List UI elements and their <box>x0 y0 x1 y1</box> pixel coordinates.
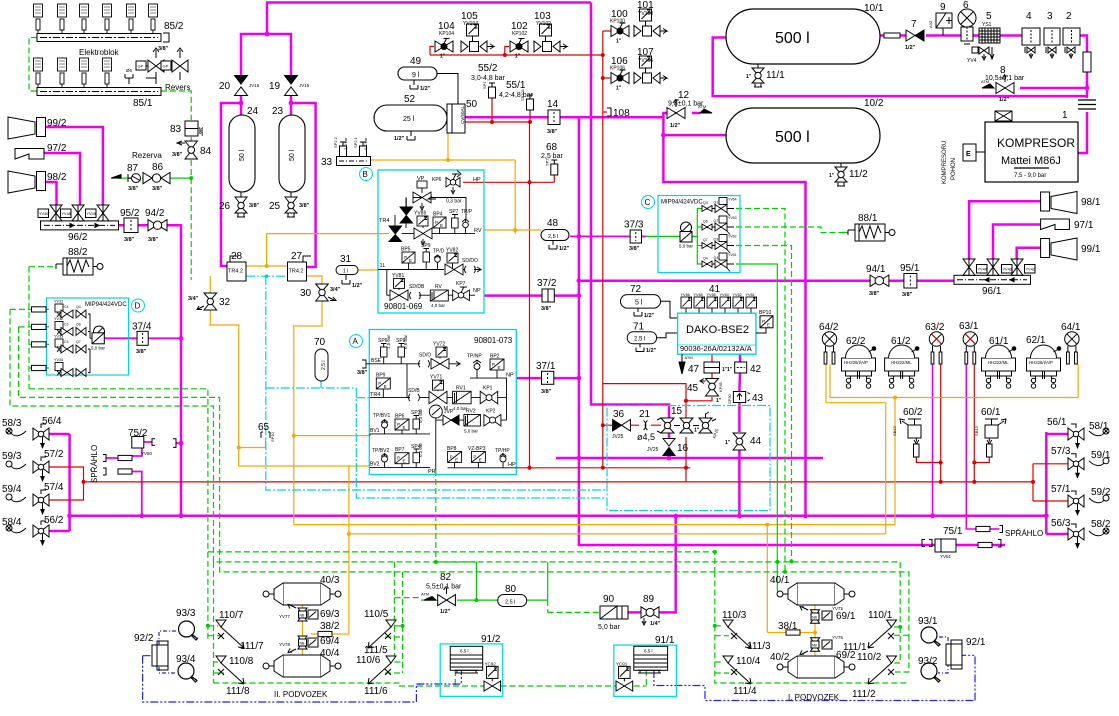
pe BP6 <box>395 419 409 434</box>
svg-text:111/2: 111/2 <box>852 689 876 700</box>
svg-text:1": 1" <box>440 54 446 60</box>
bracket 75/2d <box>103 468 106 475</box>
svg-text:GP: GP <box>138 64 144 69</box>
sp SP2.1 <box>353 136 368 156</box>
svg-text:37/4: 37/4 <box>132 322 152 333</box>
svg-text:3: 3 <box>1047 11 1053 22</box>
flag 110/5 <box>386 620 396 627</box>
svg-text:1 l: 1 l <box>343 269 348 275</box>
svg-text:5,0 bar: 5,0 bar <box>91 346 106 351</box>
solenoid YV81 <box>394 278 405 290</box>
svg-text:55/2: 55/2 <box>478 63 498 74</box>
valve 12 <box>667 99 712 129</box>
valve YV71 <box>429 380 447 404</box>
box YV51 <box>935 539 956 559</box>
valves 41 row <box>681 293 757 313</box>
svg-text:64/2: 64/2 <box>819 322 839 333</box>
block D rows <box>54 300 90 377</box>
svg-text:SP9: SP9 <box>421 243 431 249</box>
valve YV86b <box>414 226 432 245</box>
svg-text:3/8": 3/8" <box>136 349 147 355</box>
node V1 458 junction <box>577 456 582 461</box>
box 92/1 <box>946 640 962 669</box>
wire orange long line1 y=524.6 <box>294 524 895 526</box>
resistor 38/2 <box>318 631 332 636</box>
svg-text:2,5 l: 2,5 l <box>548 234 558 240</box>
wire orange right podvozek riser <box>767 525 815 656</box>
label C circle <box>642 196 655 209</box>
svg-text:3,0-4,8 bar: 3,0-4,8 bar <box>471 75 506 82</box>
svg-text:YS1: YS1 <box>982 22 992 28</box>
drain 71 <box>636 344 657 354</box>
drain 48 <box>549 241 570 253</box>
node top line junction <box>265 32 270 37</box>
horn 97/1 <box>1041 219 1070 230</box>
wire red 60/1 drop <box>974 364 989 482</box>
svg-text:P: P <box>473 454 476 459</box>
svg-text:19: 19 <box>269 81 281 92</box>
svg-text:110/4: 110/4 <box>736 656 761 667</box>
sp SP6 <box>381 344 388 364</box>
svg-text:75/1: 75/1 <box>943 526 963 537</box>
svg-text:HH222/ML: HH222/ML <box>988 360 1009 365</box>
svg-text:Rezerva: Rezerva <box>132 151 162 160</box>
node red HP-602 junction <box>601 466 605 470</box>
svg-text:SD/B: SD/B <box>408 388 420 394</box>
svg-text:KOMPRESORU: KOMPRESORU <box>942 141 948 184</box>
valve 26 <box>235 192 247 217</box>
valve SD/DB row <box>390 290 430 301</box>
wire green block C bus <box>697 209 702 265</box>
svg-text:PR: PR <box>428 469 436 475</box>
node green flagL1 junction <box>401 624 405 628</box>
wire green flags center riser <box>715 572 909 684</box>
tube 1a <box>1083 52 1091 72</box>
wire V1 vertical x=578.9 <box>579 117 1005 545</box>
wire dryer 50 outlet line y=117.3 <box>465 116 663 119</box>
wire green rezerva line <box>119 177 191 179</box>
box 14 <box>548 110 560 125</box>
bus HP A <box>448 467 517 469</box>
svg-text:56/2: 56/2 <box>44 515 64 526</box>
svg-text:YV64: YV64 <box>728 198 737 202</box>
drain 85/1 <box>125 74 133 84</box>
svg-text:P: P <box>397 422 400 427</box>
svg-text:C4: C4 <box>64 305 69 309</box>
cylinders on 85/1 <box>34 58 112 88</box>
valve 16 <box>647 439 675 456</box>
svg-text:E: E <box>767 322 770 327</box>
drier 40/1 <box>777 583 855 605</box>
box 3 <box>1044 28 1060 58</box>
svg-text:52: 52 <box>404 94 416 105</box>
capsule 31 <box>336 266 358 275</box>
svg-text:ATM: ATM <box>685 355 693 360</box>
svg-text:3/8": 3/8" <box>172 152 183 158</box>
resistor 75/1 <box>976 526 990 531</box>
wire green PR drop <box>436 470 477 562</box>
node V1 37/2 junction <box>577 293 582 298</box>
arrow 111/4 <box>728 663 751 684</box>
svg-text:3/8": 3/8" <box>357 370 368 376</box>
svg-text:YV31: YV31 <box>54 300 63 304</box>
pe BP2 <box>490 359 504 378</box>
svg-text:YV102: YV102 <box>536 21 551 27</box>
wire green box90 line <box>548 600 600 612</box>
svg-text:95/1: 95/1 <box>900 263 920 274</box>
unit 60/1 <box>974 419 1006 457</box>
svg-text:500 l: 500 l <box>775 129 810 146</box>
svg-text:40/3: 40/3 <box>320 575 340 586</box>
svg-text:57/2: 57/2 <box>44 449 64 460</box>
svg-text:33: 33 <box>321 157 333 168</box>
svg-text:TR4.2: TR4.2 <box>289 269 304 275</box>
valve 96/1-2 <box>987 259 1012 275</box>
wire tank10-1 loop <box>713 38 1087 97</box>
chk TP/P <box>462 219 469 234</box>
node green G552 joint <box>713 550 717 554</box>
svg-text:57/1: 57/1 <box>1051 484 1071 495</box>
svg-text:E: E <box>384 384 387 389</box>
valve 57/3 <box>1068 454 1084 479</box>
mag 93/2 <box>921 663 940 682</box>
svg-text:YV66: YV66 <box>681 293 690 297</box>
wire green 88/2 feed <box>29 267 56 389</box>
svg-text:56/1: 56/1 <box>1047 417 1067 428</box>
svg-text:D: D <box>135 302 141 311</box>
svg-text:50 l: 50 l <box>239 149 246 161</box>
svg-text:YC91: YC91 <box>616 661 628 666</box>
node 56-right junction <box>1044 513 1049 518</box>
svg-text:43: 43 <box>752 393 764 404</box>
svg-text:93/4: 93/4 <box>176 654 196 665</box>
wire horn 98/1 <box>969 201 1041 262</box>
svg-text:11/2: 11/2 <box>849 169 868 180</box>
flag 110/8 <box>216 656 226 663</box>
wire horn 99/1 <box>1017 248 1041 262</box>
rezerva arrow <box>111 175 121 179</box>
wire valve44 drop <box>738 450 741 516</box>
svg-text:16: 16 <box>677 443 689 454</box>
svg-text:SD/DB: SD/DB <box>409 284 425 290</box>
svg-text:5,0 bar: 5,0 bar <box>464 429 479 434</box>
svg-text:Q4: Q4 <box>703 201 708 205</box>
wire green D resistor links <box>46 309 49 368</box>
tank 52 <box>374 105 447 131</box>
svg-text:2,5 bar: 2,5 bar <box>541 153 563 160</box>
valve 96/2-2 <box>61 205 85 221</box>
node x181 junction <box>179 513 184 518</box>
svg-text:1": 1" <box>725 440 731 446</box>
svg-text:10,5±0,1 bar: 10,5±0,1 bar <box>985 75 1025 82</box>
svg-text:SB13: SB13 <box>892 425 897 436</box>
valve 104 KP104 <box>435 39 453 60</box>
svg-text:P: P <box>492 362 495 367</box>
svg-text:98/1: 98/1 <box>1081 197 1101 208</box>
node red 68 junction <box>528 180 532 184</box>
node red 60/1 junction <box>972 461 976 465</box>
svg-text:111/8: 111/8 <box>226 686 250 697</box>
wire green elektroblok left link <box>29 38 37 92</box>
block C box <box>658 196 740 273</box>
svg-text:91/1: 91/1 <box>655 635 675 646</box>
drier 40/4 <box>263 655 341 677</box>
svg-text:6,5 l: 6,5 l <box>460 649 469 654</box>
valve 32 <box>197 293 217 310</box>
svg-text:Q7: Q7 <box>76 340 81 344</box>
svg-text:RV1: RV1 <box>456 386 466 392</box>
svg-text:28: 28 <box>231 251 243 262</box>
valve 107 YV106 <box>634 56 667 84</box>
block C reducer <box>680 232 692 243</box>
wire green drier 40/1 feed <box>777 562 779 594</box>
solenoid YC92 <box>487 666 499 681</box>
box 43 SP30 <box>727 392 750 405</box>
svg-text:1/2": 1/2" <box>420 86 431 92</box>
node orange 2827 junction <box>265 264 269 268</box>
svg-text:SPŘÁHLO: SPŘÁHLO <box>90 445 99 483</box>
svg-text:NP: NP <box>473 288 481 294</box>
node green flagL2 junction <box>206 624 210 628</box>
wire green 84 to rezerva <box>190 160 192 280</box>
svg-text:ø4,5: ø4,5 <box>637 432 655 442</box>
valve 96/2-3 <box>86 205 110 221</box>
svg-text:57/4: 57/4 <box>44 482 64 493</box>
svg-text:69/4: 69/4 <box>320 636 340 647</box>
valve 57/2 <box>33 457 49 482</box>
bus BV2 <box>370 467 430 469</box>
mag 93/1 <box>921 627 940 646</box>
valve YV4 <box>972 47 994 60</box>
bracket 75/1a <box>1000 526 1003 533</box>
wire green flag X left <box>385 637 403 673</box>
svg-text:Mattei M86J: Mattei M86J <box>1001 155 1061 167</box>
tube 7a <box>884 33 900 38</box>
svg-text:1": 1" <box>829 173 835 179</box>
svg-text:E: E <box>498 365 501 370</box>
svg-text:57/3: 57/3 <box>1051 446 1071 457</box>
svg-text:Q4: Q4 <box>714 256 719 260</box>
svg-text:TP/HP: TP/HP <box>495 448 510 454</box>
svg-text:92/1: 92/1 <box>966 637 986 648</box>
valve 102 KP102 <box>510 39 528 60</box>
block D internal bus <box>88 314 90 373</box>
box 2 <box>1063 28 1080 58</box>
bracket 543a <box>922 540 925 547</box>
svg-text:44: 44 <box>750 436 762 447</box>
svg-text:110/2: 110/2 <box>857 652 882 663</box>
node red HP-686 junction <box>684 466 688 470</box>
svg-text:Q3: Q3 <box>714 238 719 242</box>
pe BP4 <box>433 217 446 234</box>
tank 91/1 <box>634 646 668 673</box>
capsule 80 <box>498 595 527 607</box>
node orange 33 junction <box>446 158 450 162</box>
valve 96/1-1 <box>963 259 987 275</box>
svg-text:YV48: YV48 <box>62 212 71 216</box>
wire orange box33 to dryer line y=160 <box>371 133 516 234</box>
valve 11/1 <box>746 64 764 87</box>
valve 96/1-3 <box>1011 259 1035 275</box>
svg-text:1L: 1L <box>380 263 386 269</box>
chk TP/BV1 <box>381 420 388 434</box>
revers valve 1 <box>136 48 164 84</box>
flag 110/1 <box>887 620 897 627</box>
flag 110/7 <box>216 620 226 627</box>
svg-text:61/1: 61/1 <box>989 336 1009 347</box>
svg-text:YV106: YV106 <box>638 58 653 64</box>
svg-text:1,5 bar: 1,5 bar <box>386 334 391 349</box>
wire orange box28 to valve32 <box>210 276 370 466</box>
valve 8 <box>981 74 1014 103</box>
wire 71 to DAKO <box>657 333 678 338</box>
svg-text:BP5: BP5 <box>401 247 411 253</box>
drain 52 <box>394 131 415 142</box>
svg-text:58/3: 58/3 <box>2 418 22 429</box>
svg-text:60/1: 60/1 <box>981 407 1001 418</box>
svg-text:YV40: YV40 <box>39 212 48 216</box>
svg-text:59/4: 59/4 <box>2 484 22 495</box>
bracket 75/2a <box>152 439 155 446</box>
svg-text:108: 108 <box>613 108 630 119</box>
svg-text:1/2": 1/2" <box>670 123 681 129</box>
node 37/4 junction <box>179 336 184 341</box>
svg-text:E: E <box>440 223 443 228</box>
chk TP/HP <box>500 454 507 468</box>
svg-text:69/1: 69/1 <box>836 611 856 622</box>
box 5 YS1 <box>979 28 1000 43</box>
svg-text:YV50: YV50 <box>141 451 153 456</box>
svg-text:87: 87 <box>127 163 139 174</box>
wire red 57/3 57/1 right <box>1033 464 1069 501</box>
valve B upper <box>413 192 436 210</box>
svg-text:Ø6: Ø6 <box>126 68 133 73</box>
box 9 <box>928 13 952 36</box>
svg-text:YV82: YV82 <box>446 248 458 254</box>
svg-text:26: 26 <box>219 201 231 212</box>
flag 110/2 <box>887 656 897 663</box>
svg-text:3/8": 3/8" <box>869 291 880 297</box>
svg-text:5,5±0,1 bar: 5,5±0,1 bar <box>426 584 462 591</box>
svg-text:KP102: KP102 <box>512 31 527 37</box>
svg-text:89: 89 <box>643 594 655 605</box>
svg-text:1": 1" <box>616 86 622 92</box>
damper 88/1 <box>848 224 895 241</box>
svg-text:88/2: 88/2 <box>68 247 88 258</box>
node green G562 791 junction <box>790 559 794 563</box>
node V1 48 junction <box>577 234 582 239</box>
svg-text:VZ-BP3: VZ-BP3 <box>468 446 486 452</box>
wire orange 65 stub <box>239 438 266 448</box>
block D resistors <box>32 307 47 371</box>
node orange 65 junction <box>237 446 241 450</box>
svg-text:48: 48 <box>547 218 559 229</box>
svg-text:P: P <box>450 454 453 459</box>
svg-text:25 l: 25 l <box>403 116 415 123</box>
hose 58/4 <box>6 525 26 533</box>
box 95/1 <box>904 274 917 289</box>
svg-text:GP: GP <box>163 64 169 69</box>
valve 36 <box>612 420 630 441</box>
wire orange box27 to valve30 <box>294 276 322 525</box>
svg-text:3/8": 3/8" <box>124 237 135 243</box>
wire 48 to 37/3 <box>570 235 646 237</box>
svg-text:55/1: 55/1 <box>506 80 526 91</box>
wire orange long line2 y=533.9 <box>349 533 886 535</box>
box 47 <box>704 362 728 373</box>
svg-text:Q7: Q7 <box>714 219 719 223</box>
solenoid YV72 <box>436 347 447 359</box>
label B circle <box>360 168 373 181</box>
svg-text:BP4: BP4 <box>433 212 443 218</box>
svg-text:SPŘÁHLO: SPŘÁHLO <box>1005 529 1043 538</box>
svg-text:10/1: 10/1 <box>864 3 884 14</box>
gauge 6 <box>958 9 976 44</box>
tank 10/2 <box>726 108 880 163</box>
node 75/2-3row junction <box>139 513 144 518</box>
svg-text:97/2: 97/2 <box>47 143 67 154</box>
wire lamp 63/1 drop to 75/1 <box>966 364 977 529</box>
valve KP1 <box>480 391 498 404</box>
node red y55 junction <box>503 53 507 57</box>
wire red 100-network vertical <box>602 31 604 468</box>
valve 7 <box>905 30 924 51</box>
valve 45 KP45 <box>700 379 723 405</box>
svg-text:E: E <box>455 457 458 462</box>
chk TP/NP <box>473 360 481 378</box>
node 44 drop junction <box>737 514 742 519</box>
svg-text:E: E <box>403 425 406 430</box>
wire 75/2 row brackets <box>106 457 114 459</box>
valve 56/4 <box>33 424 49 449</box>
wire 56 column left <box>49 434 70 531</box>
wire NP 37/2 line <box>484 294 579 297</box>
svg-text:3/8": 3/8" <box>629 246 640 252</box>
svg-text:BP10: BP10 <box>759 310 771 316</box>
svg-text:3/8": 3/8" <box>249 203 260 209</box>
svg-text:BV1: BV1 <box>370 428 380 434</box>
svg-text:NB: NB <box>812 616 818 620</box>
wire red main y=481.9 <box>84 481 1034 483</box>
wire green 88/1 stub <box>841 232 848 234</box>
wire green flags left riser <box>394 562 421 673</box>
node tank10/2 12 junction <box>661 133 666 138</box>
svg-text:YV77: YV77 <box>279 614 291 619</box>
pe BP5 <box>402 252 415 270</box>
svg-text:YV104: YV104 <box>463 21 478 27</box>
wire green 85/1 to 83 84 <box>161 91 191 120</box>
svg-text:12: 12 <box>678 90 690 101</box>
valve 57/4 <box>33 490 49 515</box>
svg-text:YV78: YV78 <box>279 642 291 647</box>
drain 72 <box>634 308 655 319</box>
svg-text:37/1: 37/1 <box>536 361 556 372</box>
svg-text:91/2: 91/2 <box>481 634 501 645</box>
valve KP7 <box>448 287 475 301</box>
svg-text:40/1: 40/1 <box>770 575 790 586</box>
node valve16 458 junction <box>667 456 672 461</box>
svg-text:3/8": 3/8" <box>158 46 169 52</box>
wire red valve100 stub <box>603 30 611 32</box>
wire lamp 63/2 drop <box>932 364 934 516</box>
svg-text:C3: C3 <box>64 323 69 327</box>
block A box <box>369 330 516 475</box>
flag 110/3 <box>723 620 733 627</box>
svg-text:JV25: JV25 <box>647 447 659 453</box>
svg-text:64/1: 64/1 <box>1061 322 1081 333</box>
manifold 96/2 <box>41 221 119 230</box>
node red y55 right junction <box>601 53 605 57</box>
